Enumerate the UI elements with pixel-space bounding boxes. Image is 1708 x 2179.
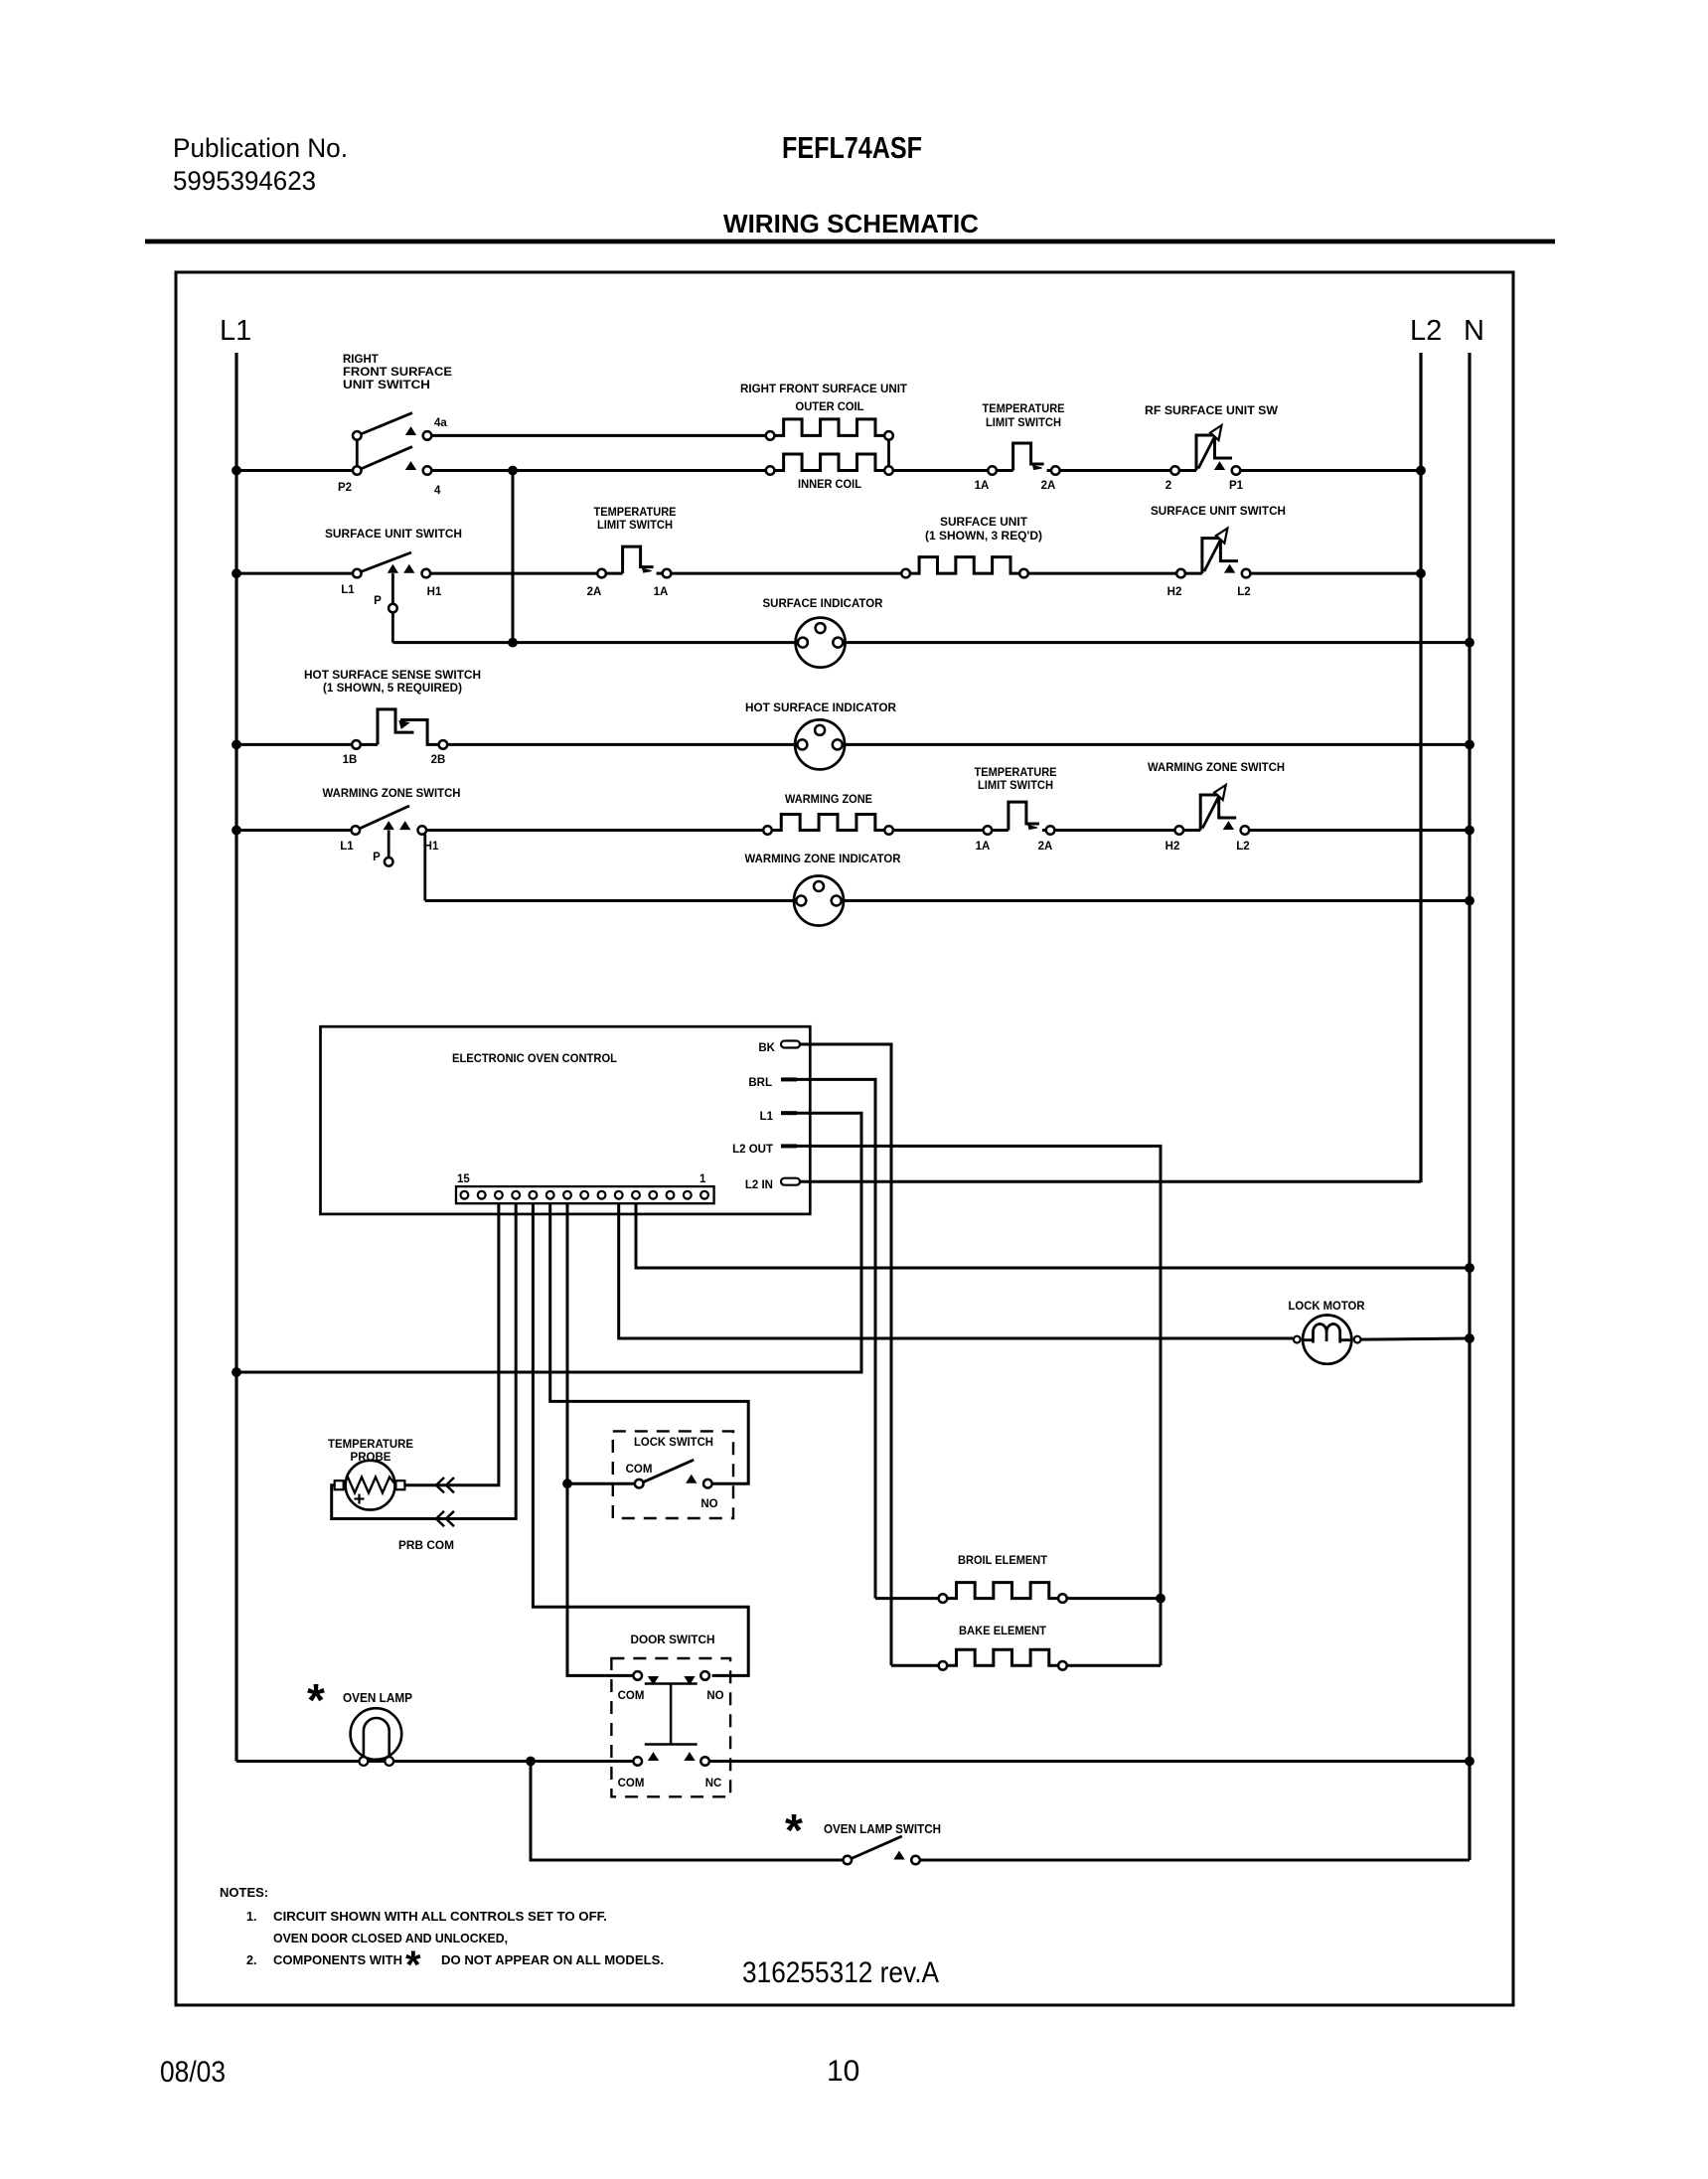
wire drop pin10 to lock switch NO bbox=[550, 1203, 749, 1483]
junction row6 N bbox=[1466, 896, 1475, 905]
svg-text:H2: H2 bbox=[1167, 586, 1182, 598]
svg-text:N: N bbox=[1464, 315, 1484, 347]
lock switch dashed box bbox=[613, 1431, 733, 1518]
wire 1A to surface unit element bbox=[671, 572, 901, 575]
svg-text:15: 15 bbox=[457, 1173, 470, 1185]
wire BRL pin bbox=[797, 1079, 875, 1598]
wire drop pin11 to oven lamp circuit bbox=[533, 1203, 748, 1675]
svg-text:P2: P2 bbox=[338, 482, 352, 494]
junction row1 tap bbox=[509, 466, 518, 475]
wire probe left terminal loop bbox=[332, 1485, 457, 1519]
svg-text:OUTER COIL: OUTER COIL bbox=[796, 401, 864, 413]
svg-text:LIMIT SWITCH: LIMIT SWITCH bbox=[986, 417, 1061, 429]
junction lock COM tap bbox=[563, 1479, 572, 1488]
svg-text:1.: 1. bbox=[246, 1910, 256, 1924]
svg-text:SURFACE INDICATOR: SURFACE INDICATOR bbox=[763, 598, 884, 610]
wire drop pin12 to probe common bbox=[457, 1203, 516, 1518]
wire door NC to N rail bbox=[709, 1760, 1470, 1763]
wire indicator to N rail bbox=[846, 641, 1470, 644]
wire row5 left bbox=[236, 829, 352, 832]
svg-text:TEMPERATURE: TEMPERATURE bbox=[594, 507, 677, 519]
svg-text:4a: 4a bbox=[434, 417, 447, 429]
svg-text:(1 SHOWN, 3 REQ'D): (1 SHOWN, 3 REQ'D) bbox=[925, 531, 1042, 543]
wire drop pin5 to N bbox=[636, 1203, 1470, 1268]
wire row1 junction to inner coil bbox=[513, 469, 766, 472]
connector chevrons probe signal bbox=[436, 1478, 444, 1492]
svg-text:SURFACE UNIT SWITCH: SURFACE UNIT SWITCH bbox=[325, 529, 462, 541]
svg-text:L2: L2 bbox=[1236, 841, 1249, 853]
junction row5 N bbox=[1466, 826, 1475, 835]
switch warming zone switch right bbox=[1175, 826, 1184, 835]
wire 4 to junction bbox=[431, 469, 513, 472]
wire L2 rail bbox=[1419, 353, 1422, 1182]
svg-text:1B: 1B bbox=[343, 754, 358, 766]
lamp oven lamp bbox=[351, 1708, 402, 1760]
svg-text:BRL: BRL bbox=[748, 1077, 772, 1089]
svg-text:WIRING SCHEMATIC: WIRING SCHEMATIC bbox=[723, 209, 979, 238]
switch right front surface unit switch (P2/4/4a) bbox=[353, 466, 362, 475]
heater warming zone element bbox=[763, 826, 772, 835]
svg-text:2.: 2. bbox=[246, 1953, 256, 1967]
svg-text:WARMING ZONE INDICATOR: WARMING ZONE INDICATOR bbox=[745, 854, 902, 865]
switch door switch lower contacts bbox=[633, 1757, 642, 1766]
svg-text:1A: 1A bbox=[976, 841, 991, 853]
svg-text:HOT SURFACE INDICATOR: HOT SURFACE INDICATOR bbox=[745, 702, 897, 714]
svg-text:FEFL74ASF: FEFL74ASF bbox=[782, 130, 922, 165]
heater broil element bbox=[875, 1597, 939, 1600]
svg-text:OVEN DOOR CLOSED AND UNLOCKED,: OVEN DOOR CLOSED AND UNLOCKED, bbox=[273, 1932, 508, 1946]
svg-text:COM: COM bbox=[618, 1778, 645, 1790]
svg-text:316255312 rev.A: 316255312 rev.A bbox=[742, 1956, 939, 1989]
svg-text:1A: 1A bbox=[654, 586, 669, 598]
motor lock motor bbox=[1303, 1316, 1351, 1364]
heater inner coil bbox=[766, 466, 775, 475]
switch oven lamp switch bbox=[844, 1856, 853, 1865]
connector chevrons probe common bbox=[436, 1511, 444, 1526]
svg-text:TEMPERATURE: TEMPERATURE bbox=[328, 1439, 413, 1451]
svg-text:NC: NC bbox=[705, 1778, 722, 1790]
junction L1 row4 bbox=[233, 740, 241, 749]
junction oven lamp row N bbox=[1466, 1757, 1475, 1766]
wire row4 middle bbox=[447, 743, 795, 746]
svg-text:INNER COIL: INNER COIL bbox=[798, 479, 861, 491]
svg-text:NO: NO bbox=[706, 1690, 723, 1702]
svg-text:LIMIT SWITCH: LIMIT SWITCH bbox=[597, 520, 673, 532]
wire L1 rail bbox=[234, 353, 237, 1762]
svg-text:PRB COM: PRB COM bbox=[398, 1540, 454, 1552]
junction L1 row5 bbox=[233, 826, 241, 835]
svg-text:ELECTRONIC OVEN CONTROL: ELECTRONIC OVEN CONTROL bbox=[452, 1051, 617, 1065]
wire row2 left bbox=[236, 572, 353, 575]
svg-text:L2 OUT: L2 OUT bbox=[732, 1144, 773, 1156]
switch surface unit switch row2 bbox=[353, 569, 362, 578]
resistor temperature probe bbox=[346, 1461, 395, 1510]
terminal strip bbox=[456, 1186, 714, 1203]
svg-text:*: * bbox=[307, 1674, 325, 1726]
wire surface indicator row bbox=[392, 641, 795, 644]
svg-text:WARMING ZONE SWITCH: WARMING ZONE SWITCH bbox=[323, 788, 461, 800]
heater bake element bbox=[891, 1664, 939, 1667]
door switch dashed box bbox=[611, 1658, 730, 1796]
wire L1 pin bbox=[236, 1113, 861, 1372]
wire L2 IN pin bbox=[800, 1180, 1421, 1183]
header rule line bbox=[145, 239, 1555, 244]
svg-text:TEMPERATURE: TEMPERATURE bbox=[975, 767, 1057, 779]
switch temperature limit row2 bbox=[597, 569, 606, 578]
switch RF surface unit sw bbox=[1170, 466, 1179, 475]
wire warming zone indicator row bbox=[425, 899, 794, 902]
junction row1 L2 bbox=[1417, 466, 1426, 475]
svg-text:Publication No.: Publication No. bbox=[173, 133, 348, 163]
wire P1 to L2 rail bbox=[1240, 469, 1421, 472]
svg-text:UNIT SWITCH: UNIT SWITCH bbox=[343, 380, 430, 391]
junction L1 rail eoc bbox=[233, 1368, 241, 1377]
wire lamp switch branch bbox=[531, 1762, 844, 1861]
svg-text:LOCK MOTOR: LOCK MOTOR bbox=[1289, 1301, 1366, 1313]
svg-text:OVEN LAMP SWITCH: OVEN LAMP SWITCH bbox=[824, 1822, 941, 1836]
wire drop pin13 to temperature probe bbox=[457, 1203, 499, 1485]
svg-text:DOOR SWITCH: DOOR SWITCH bbox=[631, 1634, 715, 1646]
wire broil to L2 OUT bbox=[1067, 1597, 1161, 1600]
svg-text:10: 10 bbox=[827, 2055, 859, 2088]
svg-text:RF SURFACE UNIT SW: RF SURFACE UNIT SW bbox=[1145, 405, 1278, 417]
junction oven lamp switch tap bbox=[527, 1757, 536, 1766]
svg-text:SURFACE UNIT SWITCH: SURFACE UNIT SWITCH bbox=[1151, 506, 1286, 518]
svg-text:LIMIT SWITCH: LIMIT SWITCH bbox=[978, 780, 1053, 792]
svg-text:SURFACE UNIT: SURFACE UNIT bbox=[940, 517, 1027, 529]
wire lock motor to N bbox=[1361, 1338, 1471, 1339]
svg-text:H1: H1 bbox=[427, 586, 442, 598]
svg-text:FRONT SURFACE: FRONT SURFACE bbox=[343, 367, 452, 379]
wire N rail bbox=[1468, 353, 1471, 1860]
wire L2 OUT pin bbox=[797, 1146, 1161, 1665]
svg-text:4: 4 bbox=[434, 485, 441, 497]
svg-text:NO: NO bbox=[700, 1498, 717, 1510]
svg-text:*: * bbox=[405, 1944, 421, 1987]
lamp hot surface indicator bbox=[795, 719, 845, 769]
lamp surface indicator bbox=[796, 618, 846, 668]
heater outer coil bbox=[766, 431, 775, 440]
wire 2A to RF switch bbox=[1060, 469, 1171, 472]
wire bake to L2 OUT bbox=[1067, 1664, 1161, 1667]
wire H1 drop to warming zone indicator row bbox=[423, 835, 426, 901]
wire oven lamp row bbox=[236, 1760, 360, 1763]
svg-text:L2 IN: L2 IN bbox=[745, 1179, 773, 1191]
svg-text:COM: COM bbox=[626, 1464, 653, 1476]
svg-text:BAKE ELEMENT: BAKE ELEMENT bbox=[959, 1626, 1046, 1637]
switch lock switch bbox=[635, 1479, 644, 1488]
svg-text:RIGHT: RIGHT bbox=[343, 354, 379, 366]
svg-text:P: P bbox=[373, 852, 381, 863]
junction row3 tap bbox=[509, 638, 518, 647]
svg-text:OVEN LAMP: OVEN LAMP bbox=[343, 1691, 412, 1705]
junction L1 row2 bbox=[233, 569, 241, 578]
svg-text:WARMING ZONE: WARMING ZONE bbox=[785, 794, 872, 806]
svg-text:P1: P1 bbox=[1229, 480, 1244, 492]
wire 4a to outer coil bbox=[431, 434, 766, 437]
svg-text:BROIL ELEMENT: BROIL ELEMENT bbox=[958, 1555, 1047, 1567]
svg-text:L1: L1 bbox=[340, 841, 354, 853]
electronic oven control box bbox=[321, 1026, 811, 1214]
switch temperature limit row1 bbox=[988, 466, 997, 475]
switch hot surface sense switch bbox=[352, 740, 361, 749]
switch surface unit switch row2 right bbox=[1176, 569, 1185, 578]
wire junction drop to surface indicator row bbox=[512, 471, 515, 643]
junction row2 L2 bbox=[1417, 569, 1426, 578]
junction drop5 N bbox=[1466, 1264, 1475, 1273]
svg-text:COMPONENTS WITH: COMPONENTS WITH bbox=[273, 1953, 402, 1967]
svg-text:2A: 2A bbox=[587, 586, 602, 598]
wire P tap down to P terminal bbox=[391, 573, 394, 604]
wire L2 to N rail row5 bbox=[1249, 829, 1470, 832]
lamp warming zone indicator bbox=[794, 876, 844, 926]
svg-text:2: 2 bbox=[1165, 480, 1171, 492]
junction row3 N bbox=[1466, 638, 1475, 647]
switch temperature limit row5 bbox=[984, 826, 993, 835]
switch door switch upper contacts bbox=[633, 1671, 642, 1680]
wire lamp switch to N rail bbox=[920, 1859, 1470, 1862]
wire drop pin9 to lock and door COM bbox=[567, 1203, 633, 1675]
wire drop pin6 to lock motor bbox=[619, 1203, 1293, 1338]
svg-text:L1: L1 bbox=[341, 584, 355, 596]
svg-text:H2: H2 bbox=[1165, 841, 1180, 853]
junction broil L2 OUT bbox=[1157, 1594, 1165, 1603]
svg-text:COM: COM bbox=[618, 1690, 645, 1702]
wire P stub row5 bbox=[388, 831, 390, 858]
wire L2 terminal to L2 rail bbox=[1250, 572, 1421, 575]
svg-text:(1 SHOWN, 5 REQUIRED): (1 SHOWN, 5 REQUIRED) bbox=[323, 683, 462, 695]
wire H1 to warming zone element bbox=[426, 829, 763, 832]
svg-text:1A: 1A bbox=[975, 480, 990, 492]
svg-text:CIRCUIT SHOWN WITH ALL CONTROL: CIRCUIT SHOWN WITH ALL CONTROLS SET TO O… bbox=[273, 1910, 607, 1924]
wire coils to temp limit switch bbox=[893, 469, 989, 472]
svg-text:RIGHT FRONT SURFACE UNIT: RIGHT FRONT SURFACE UNIT bbox=[740, 384, 907, 395]
wire lock COM tap bbox=[567, 1482, 635, 1485]
wire H1 to temp limit row2 bbox=[430, 572, 597, 575]
wire BK pin bbox=[800, 1044, 891, 1665]
svg-text:L2: L2 bbox=[1410, 315, 1442, 347]
svg-text:5995394623: 5995394623 bbox=[173, 166, 316, 196]
wire P terminal to surface indicator row bbox=[391, 612, 394, 642]
svg-text:2B: 2B bbox=[431, 754, 446, 766]
svg-text:L1: L1 bbox=[760, 1111, 774, 1123]
svg-text:2A: 2A bbox=[1041, 480, 1056, 492]
svg-text:1: 1 bbox=[699, 1173, 706, 1185]
svg-text:L2: L2 bbox=[1237, 586, 1250, 598]
junction row4 N bbox=[1466, 740, 1475, 749]
wire row4 left bbox=[236, 743, 352, 746]
wire row4 to N bbox=[845, 743, 1470, 746]
svg-text:WARMING ZONE SWITCH: WARMING ZONE SWITCH bbox=[1148, 762, 1285, 774]
svg-text:*: * bbox=[785, 1804, 803, 1856]
wire element to H2 bbox=[1028, 572, 1176, 575]
svg-text:DO NOT APPEAR ON ALL MODELS.: DO NOT APPEAR ON ALL MODELS. bbox=[441, 1953, 664, 1967]
svg-text:LOCK SWITCH: LOCK SWITCH bbox=[634, 1437, 713, 1449]
svg-text:BK: BK bbox=[758, 1042, 775, 1054]
junction lock motor N bbox=[1466, 1334, 1475, 1343]
svg-text:2A: 2A bbox=[1038, 841, 1053, 853]
svg-text:L1: L1 bbox=[220, 315, 251, 347]
wire row1 left bbox=[236, 469, 353, 472]
wire coil right ends tie bbox=[887, 440, 890, 467]
svg-text:NOTES:: NOTES: bbox=[220, 1885, 268, 1900]
wire probe right terminal bbox=[404, 1483, 457, 1486]
svg-text:HOT SURFACE SENSE SWITCH: HOT SURFACE SENSE SWITCH bbox=[304, 670, 481, 682]
wire row6 to N bbox=[844, 899, 1470, 902]
switch warming zone switch bbox=[352, 826, 361, 835]
border frame bbox=[176, 272, 1513, 2005]
wire element to 1A row5 bbox=[893, 829, 984, 832]
door switch actuator link bbox=[645, 1682, 698, 1685]
svg-text:08/03: 08/03 bbox=[160, 2056, 226, 2089]
junction L1 row1 bbox=[233, 466, 241, 475]
wire 2A to H2 row5 bbox=[1054, 829, 1174, 832]
svg-text:P: P bbox=[374, 595, 382, 607]
heater surface unit element bbox=[901, 569, 910, 578]
svg-text:TEMPERATURE: TEMPERATURE bbox=[983, 403, 1065, 415]
